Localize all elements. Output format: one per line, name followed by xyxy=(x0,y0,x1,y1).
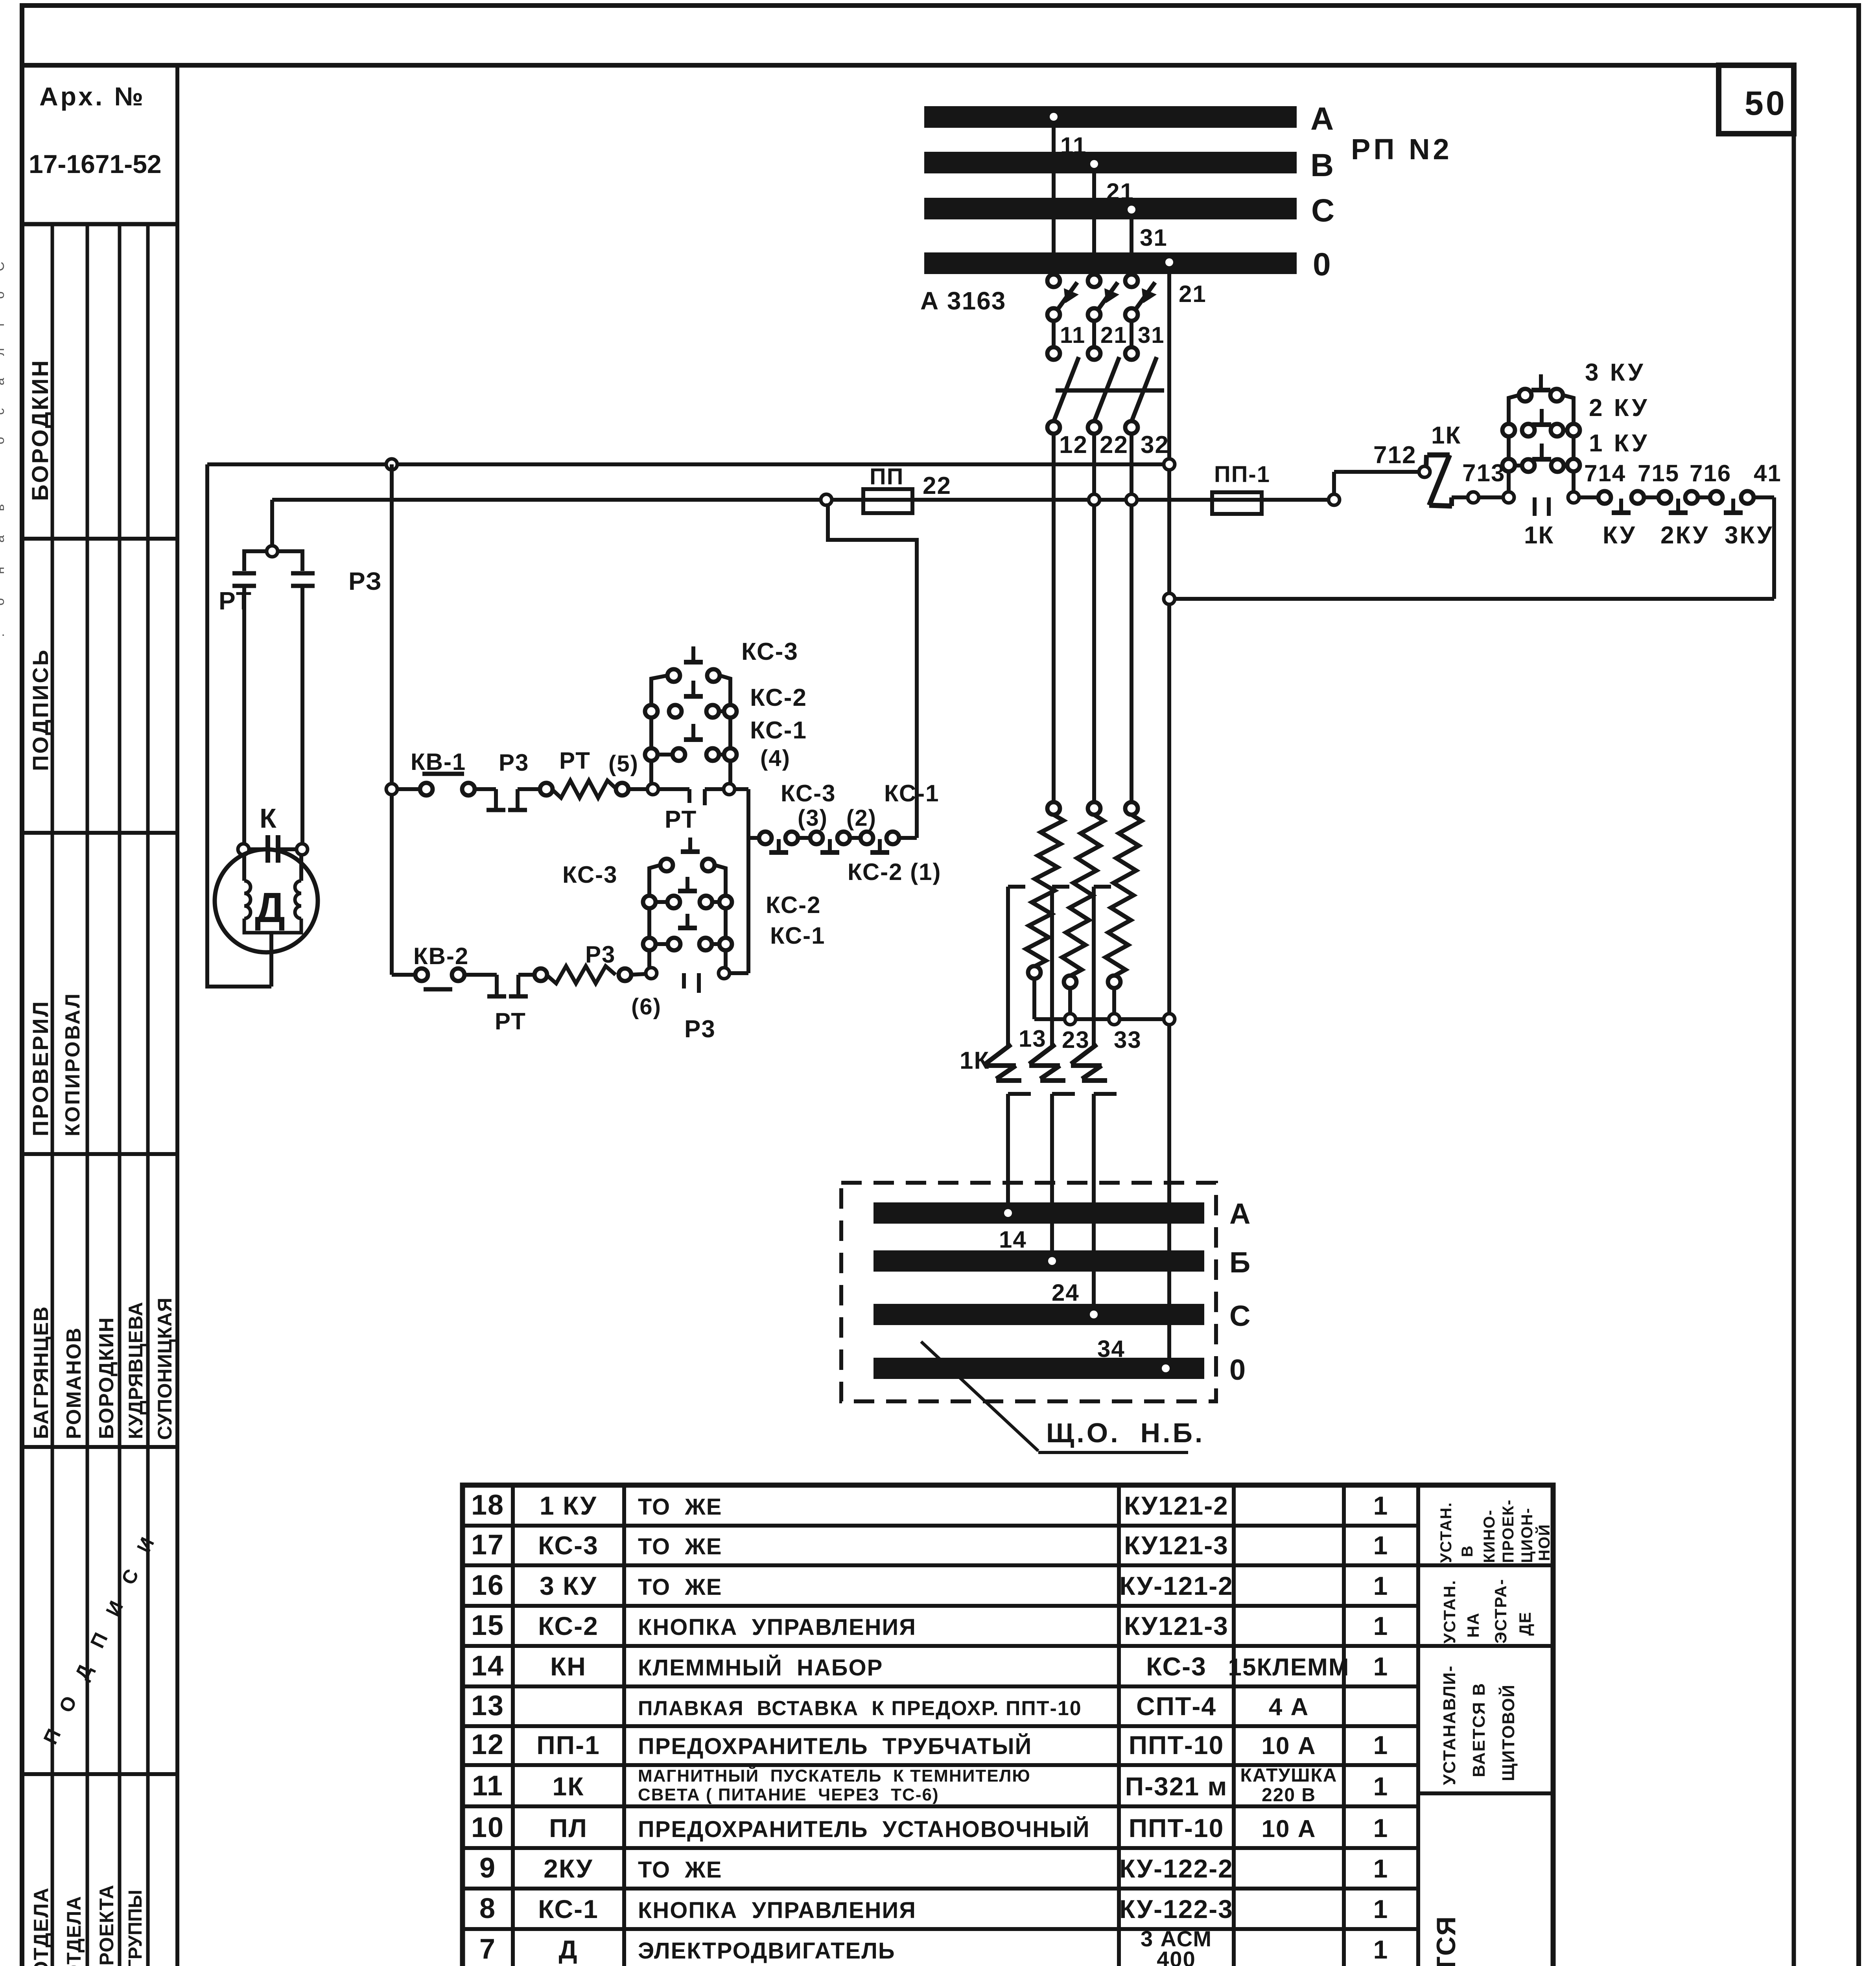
svg-text:10 А: 10 А xyxy=(1262,1732,1316,1760)
breaker crossbar xyxy=(1056,388,1164,393)
panel bus labels xyxy=(1229,1197,1251,1386)
svg-text:НОЙ: НОЙ xyxy=(1535,1524,1553,1561)
svg-text:КНОПКА УПРАВЛЕНИЯ: КНОПКА УПРАВЛЕНИЯ xyxy=(638,1614,916,1640)
wire КВ-1 rail xyxy=(390,464,394,975)
svg-text:КЛЕММНЫЙ НАБОР: КЛЕММНЫЙ НАБОР xyxy=(638,1655,883,1681)
svg-text:ТО ЖЕ: ТО ЖЕ xyxy=(638,1857,722,1883)
svg-text:21: 21 xyxy=(1100,322,1128,348)
svg-text:14: 14 xyxy=(999,1226,1027,1253)
svg-text:1К: 1К xyxy=(1431,422,1461,449)
svg-text:КНОПКА УПРАВЛЕНИЯ: КНОПКА УПРАВЛЕНИЯ xyxy=(638,1898,916,1923)
wire y1181 top control xyxy=(207,459,1175,470)
wire phase 1 to resistor xyxy=(1052,433,1056,803)
svg-text:9: 9 xyxy=(479,1852,496,1884)
svg-text:КС-2: КС-2 xyxy=(766,892,821,918)
svg-text:Д: Д xyxy=(255,884,286,931)
svg-text:12: 12 xyxy=(1059,431,1088,458)
svg-text:ПРЕДОХРАНИТЕЛЬ УСТАНОВОЧНЫЙ: ПРЕДОХРАНИТЕЛЬ УСТАНОВОЧНЫЙ xyxy=(638,1817,1090,1842)
fuse ПП xyxy=(863,464,951,513)
svg-text:Б: Б xyxy=(1229,1246,1251,1279)
svg-text:21: 21 xyxy=(1179,281,1207,307)
node wire 14 xyxy=(999,1209,1027,1253)
limit switch КВ-2 xyxy=(392,943,469,989)
svg-text:РЗ: РЗ xyxy=(348,567,382,595)
busbar C xyxy=(924,198,1297,219)
svg-text:РТ: РТ xyxy=(665,806,697,833)
neutral vertical wire xyxy=(1165,258,1173,1358)
motor Д xyxy=(215,849,318,987)
svg-text:714: 714 xyxy=(1584,460,1626,486)
svg-text:КВ-1: КВ-1 xyxy=(411,749,466,775)
svg-text:1: 1 xyxy=(1373,1854,1389,1883)
contactor 1K switch xyxy=(1426,422,1461,506)
wire 713 segment xyxy=(1452,460,1505,503)
svg-text:КС-3: КС-3 xyxy=(1146,1652,1207,1681)
svg-text:1 КУ: 1 КУ xyxy=(1589,430,1649,457)
remark rotated Устан в кинопроекционной xyxy=(1437,1499,1553,1563)
svg-text:СПТ-4: СПТ-4 xyxy=(1136,1692,1216,1721)
svg-text:КУ121-3: КУ121-3 xyxy=(1124,1531,1229,1560)
svg-text:ЭСТРА-: ЭСТРА- xyxy=(1491,1579,1510,1644)
contactor contact 1K pole 2 xyxy=(1029,887,1075,1258)
chain КУ contacts xyxy=(1579,491,1774,513)
svg-text:УСТАНАВЛИ-: УСТАНАВЛИ- xyxy=(1440,1665,1459,1785)
contact 1K aux xyxy=(1524,497,1554,549)
svg-text:К: К xyxy=(260,803,277,834)
fuse ПП-1 xyxy=(1212,462,1270,514)
svg-text:22: 22 xyxy=(1100,431,1128,458)
svg-text:1К: 1К xyxy=(960,1047,990,1074)
spec table grid xyxy=(463,1485,1553,1966)
svg-text:НА: НА xyxy=(1464,1612,1482,1638)
wire motor return rail xyxy=(207,464,271,987)
star point bus xyxy=(1034,1014,1175,1025)
button КС-2 row2 lower xyxy=(643,892,821,918)
wire y1271 fused control xyxy=(272,494,1334,505)
svg-text:БАГРЯНЦЕВ: БАГРЯНЦЕВ xyxy=(30,1306,53,1439)
button КС-2 row2 xyxy=(645,681,807,718)
svg-text:КН: КН xyxy=(550,1652,586,1681)
svg-text:(5): (5) xyxy=(608,751,639,777)
svg-text:31: 31 xyxy=(1138,322,1165,348)
svg-text:РУКОВОДИТЕЛЬ ГРУППЫ: РУКОВОДИТЕЛЬ ГРУППЫ xyxy=(125,1890,146,1966)
svg-text:в: в xyxy=(0,504,7,511)
svg-text:(6): (6) xyxy=(631,994,662,1020)
svg-text:31: 31 xyxy=(1140,225,1168,251)
svg-text:ПЛ: ПЛ xyxy=(549,1813,588,1843)
svg-text:УСТАНАВЛИВАЕТСЯ: УСТАНАВЛИВАЕТСЯ xyxy=(1431,1916,1461,1966)
relay contact РТ in КВ-2 row xyxy=(464,975,535,1035)
wire 41 return xyxy=(1164,497,1774,604)
svg-text:Р3: Р3 xyxy=(499,749,529,776)
button КС-1 row3 lower xyxy=(643,922,826,950)
svg-text:КИНО-: КИНО- xyxy=(1481,1509,1498,1563)
svg-text:713: 713 xyxy=(1462,460,1505,487)
svg-text:1: 1 xyxy=(1373,1894,1389,1924)
svg-text:4 А: 4 А xyxy=(1269,1694,1309,1721)
svg-text:ГЛ. ИНЖЕНЕР ОТДЕЛА: ГЛ. ИНЖЕНЕР ОТДЕЛА xyxy=(63,1896,85,1966)
svg-text:0: 0 xyxy=(1313,247,1331,282)
svg-text:Д: Д xyxy=(558,1935,578,1964)
svg-text:2 КУ: 2 КУ xyxy=(1589,394,1649,422)
wire lower stack to rail xyxy=(730,971,748,975)
svg-text:7: 7 xyxy=(479,1933,496,1965)
svg-text:В: В xyxy=(1310,147,1334,183)
svg-text:3КУ: 3КУ xyxy=(1725,522,1773,549)
svg-text:о: о xyxy=(0,598,7,606)
svg-text:ТО ЖЕ: ТО ЖЕ xyxy=(638,1574,722,1600)
button block rails xyxy=(1503,403,1579,503)
svg-text:22: 22 xyxy=(923,472,951,499)
busbar labels A B C 0 xyxy=(1310,101,1334,282)
relay coil РЗ contact xyxy=(291,567,382,844)
svg-text:ПП: ПП xyxy=(870,464,904,490)
remark rotated Устанавливается в щитовой xyxy=(1440,1665,1518,1785)
relay contact Р3 in КВ-1 row xyxy=(474,749,541,810)
node tap A xyxy=(1050,113,1058,274)
svg-text:15: 15 xyxy=(471,1610,504,1641)
svg-text:ГЛ. ИНЖЕНЕР ПРОЕКТА: ГЛ. ИНЖЕНЕР ПРОЕКТА xyxy=(96,1885,118,1966)
sheet number box 50 xyxy=(1719,65,1794,134)
svg-text:220 В: 220 В xyxy=(1262,1785,1316,1806)
svg-text:1К: 1К xyxy=(553,1772,584,1801)
svg-text:ЭЛЕКТРОДВИГАТЕЛЬ: ЭЛЕКТРОДВИГАТЕЛЬ xyxy=(638,1938,896,1964)
svg-text:12: 12 xyxy=(471,1729,504,1760)
button КС-1 row3 xyxy=(645,717,807,771)
svg-text:33: 33 xyxy=(1114,1027,1142,1053)
contactor contact 1K pole 3 xyxy=(1071,887,1117,1312)
svg-text:11: 11 xyxy=(1060,133,1087,159)
button symbol lower row3 xyxy=(686,914,689,928)
svg-text:КАТУШКА: КАТУШКА xyxy=(1240,1765,1338,1786)
svg-text:17-1671-52: 17-1671-52 xyxy=(29,149,162,179)
svg-text:3 КУ: 3 КУ xyxy=(540,1571,597,1600)
svg-text:13: 13 xyxy=(1019,1025,1047,1052)
svg-text:17: 17 xyxy=(471,1529,504,1561)
node tap B xyxy=(1090,160,1098,274)
svg-text:1: 1 xyxy=(1373,1491,1389,1520)
breaker output labels 12 22 32 xyxy=(1059,431,1169,458)
resistor Р3 in КВ-2 row xyxy=(534,941,646,983)
svg-text:ТО ЖЕ: ТО ЖЕ xyxy=(638,1534,722,1559)
margin archive marks xyxy=(0,261,7,637)
svg-text:С: С xyxy=(1311,193,1334,228)
labels 714 715 716 41 xyxy=(1584,460,1782,486)
svg-text:ПРОЕК-: ПРОЕК- xyxy=(1500,1499,1517,1563)
svg-text:л: л xyxy=(0,348,7,356)
svg-text:КУДРЯВЦЕВА: КУДРЯВЦЕВА xyxy=(125,1301,147,1439)
remark rotated Устан на эстраде xyxy=(1440,1579,1534,1644)
button symbol lower row2 xyxy=(686,877,689,891)
busbar 0 xyxy=(924,252,1297,274)
labels 13 23 33 xyxy=(1019,1025,1142,1053)
node wire 34 xyxy=(1090,1311,1125,1362)
svg-text:КУ: КУ xyxy=(1603,522,1636,549)
svg-text:РОМАНОВ: РОМАНОВ xyxy=(63,1327,85,1439)
svg-text:(2): (2) xyxy=(846,805,877,831)
svg-text:34: 34 xyxy=(1097,1336,1125,1362)
breaker pole labels 11 21 31 xyxy=(1060,322,1165,348)
button КС-3 row1 lower xyxy=(562,859,726,888)
node tap C xyxy=(1128,206,1135,274)
svg-text:1: 1 xyxy=(1373,1935,1389,1964)
svg-text:24: 24 xyxy=(1052,1279,1080,1306)
panel busbar 0 xyxy=(874,1358,1204,1379)
breaker pole 3 xyxy=(1125,274,1157,434)
svg-text:с: с xyxy=(0,408,7,415)
row 7 type two-line xyxy=(1141,1926,1212,1966)
svg-text:РТ: РТ xyxy=(219,587,252,615)
wire chain to fuse junction xyxy=(826,505,917,838)
svg-text:8: 8 xyxy=(479,1893,496,1924)
svg-text:Р3: Р3 xyxy=(684,1016,716,1043)
svg-text:1К: 1К xyxy=(1524,522,1554,549)
svg-text:КС-3: КС-3 xyxy=(741,638,798,665)
svg-text:ВАЕТСЯ В: ВАЕТСЯ В xyxy=(1469,1683,1489,1777)
capacitor К xyxy=(238,803,308,863)
button КС-3 row1 xyxy=(651,638,798,692)
svg-text:1: 1 xyxy=(1373,1772,1389,1801)
svg-text:11: 11 xyxy=(472,1770,503,1802)
svg-text:КУ121-2: КУ121-2 xyxy=(1124,1491,1229,1520)
svg-text:А: А xyxy=(1310,101,1334,137)
svg-text:КУ121-3: КУ121-3 xyxy=(1124,1611,1229,1640)
svg-text:БОРОДКИН: БОРОДКИН xyxy=(28,359,53,501)
svg-text:МАГНИТНЫЙ ПУСКАТЕЛЬ К ТЕМНИТ: МАГНИТНЫЙ ПУСКАТЕЛЬ К ТЕМНИТЕЛЮ xyxy=(638,1765,1031,1786)
svg-text:ПРОВЕРИЛ: ПРОВЕРИЛ xyxy=(28,1000,53,1136)
wire phase 2 to resistor xyxy=(1092,433,1096,803)
chain labels xyxy=(781,780,942,885)
svg-text:г: г xyxy=(0,322,7,326)
svg-text:СУПОНИЦКАЯ: СУПОНИЦКАЯ xyxy=(154,1297,176,1440)
button stack 1 rails xyxy=(647,679,735,795)
svg-text:н: н xyxy=(0,567,7,574)
spec table rows text xyxy=(471,1489,1388,1966)
svg-text:П-321 м: П-321 м xyxy=(1125,1772,1228,1801)
svg-text:2КУ: 2КУ xyxy=(1660,522,1709,549)
svg-text:ПЛАВКАЯ ВСТАВКА К ПРЕДОХР. П: ПЛАВКАЯ ВСТАВКА К ПРЕДОХР. ППТ-10 xyxy=(638,1697,1082,1720)
svg-text:а: а xyxy=(0,535,7,543)
breaker pole 1 xyxy=(1047,274,1079,434)
svg-text:С: С xyxy=(0,261,7,271)
panel busbar Б xyxy=(874,1250,1204,1272)
svg-text:1: 1 xyxy=(1373,1531,1389,1560)
svg-text:2КУ: 2КУ xyxy=(544,1854,593,1883)
svg-text:ПРЕДОХРАНИТЕЛЬ ТРУБЧАТЫЙ: ПРЕДОХРАНИТЕЛЬ ТРУБЧАТЫЙ xyxy=(638,1734,1032,1759)
svg-text:БОРОДКИН: БОРОДКИН xyxy=(95,1317,118,1439)
svg-text:Арх. №: Арх. № xyxy=(39,82,146,111)
svg-text:КС-2: КС-2 xyxy=(750,684,807,711)
svg-text:Щ.О. Н.Б.: Щ.О. Н.Б. xyxy=(1046,1417,1205,1448)
relay Р3 contact below lower stack xyxy=(631,973,716,1043)
svg-text:21: 21 xyxy=(1106,179,1134,205)
svg-text:УСТАН.: УСТАН. xyxy=(1440,1579,1459,1644)
relay coil РТ contact xyxy=(219,573,256,844)
svg-text:1: 1 xyxy=(1373,1611,1389,1640)
svg-text:С: С xyxy=(1229,1300,1251,1332)
svg-text:716: 716 xyxy=(1690,460,1731,486)
svg-text:11: 11 xyxy=(1060,322,1085,348)
svg-text:ДЕ: ДЕ xyxy=(1516,1611,1534,1636)
svg-text:РТ: РТ xyxy=(559,747,591,774)
svg-text:1: 1 xyxy=(1373,1571,1389,1600)
node wire neutral panel xyxy=(1162,1364,1170,1372)
chain КС contacts xyxy=(748,832,917,852)
wire branch РТ РЗ xyxy=(244,500,302,571)
svg-text:0: 0 xyxy=(1229,1353,1246,1386)
row 11 two-line name xyxy=(638,1765,1337,1806)
svg-text:о: о xyxy=(0,291,7,299)
busbar A xyxy=(924,106,1297,128)
svg-text:18: 18 xyxy=(471,1489,504,1521)
contactor contact 1K pole 1 xyxy=(985,887,1031,1210)
svg-text:23: 23 xyxy=(1062,1027,1090,1053)
leader Щ.О. Н.Б. xyxy=(921,1342,1205,1452)
svg-text:КС-1: КС-1 xyxy=(770,922,826,949)
svg-text:КС-1: КС-1 xyxy=(538,1894,599,1924)
svg-text:КС-3: КС-3 xyxy=(562,862,618,888)
button 3КУ xyxy=(1509,359,1646,409)
limit switch КВ-1 xyxy=(386,749,475,795)
svg-text:715: 715 xyxy=(1638,460,1679,486)
svg-text:КОПИРОВАЛ: КОПИРОВАЛ xyxy=(61,992,84,1136)
svg-text:А 3163: А 3163 xyxy=(920,287,1006,315)
svg-text:3 КУ: 3 КУ xyxy=(1585,359,1646,386)
svg-text:КУ-121-2: КУ-121-2 xyxy=(1119,1571,1233,1600)
svg-text:41: 41 xyxy=(1754,460,1782,486)
svg-text:(3): (3) xyxy=(798,805,828,831)
svg-text:о: о xyxy=(0,437,7,444)
svg-text:КУ-122-3: КУ-122-3 xyxy=(1119,1894,1233,1924)
svg-text:712: 712 xyxy=(1373,442,1416,469)
svg-text:32: 32 xyxy=(1141,431,1169,458)
svg-text:ПП-1: ПП-1 xyxy=(536,1730,600,1760)
button stack 2 rails xyxy=(646,868,730,979)
svg-text:(4): (4) xyxy=(760,746,791,771)
svg-text:1: 1 xyxy=(1373,1813,1389,1843)
svg-text:ПОДПИСЬ: ПОДПИСЬ xyxy=(28,648,53,771)
breaker pole 2 xyxy=(1088,274,1119,434)
relay РТ contact below stack xyxy=(658,789,724,852)
svg-text:ППТ-10: ППТ-10 xyxy=(1129,1813,1224,1843)
svg-text:ПП-1: ПП-1 xyxy=(1214,462,1270,487)
svg-text:14: 14 xyxy=(471,1650,504,1682)
svg-text:КС-2: КС-2 xyxy=(538,1611,599,1640)
busbar B xyxy=(924,152,1297,173)
dimmer resistor R1 xyxy=(1026,802,1063,1019)
svg-text:В: В xyxy=(1459,1545,1476,1557)
svg-text:СВЕТА ( ПИТАНИЕ ЧЕРЕЗ ТС-6): СВЕТА ( ПИТАНИЕ ЧЕРЕЗ ТС-6) xyxy=(638,1785,939,1804)
svg-text:КС-1: КС-1 xyxy=(750,717,807,744)
svg-text:10 А: 10 А xyxy=(1262,1815,1316,1843)
wire 712 step xyxy=(1329,442,1430,505)
remark rotated Устанавливается на ТС-6 xyxy=(1431,1916,1508,1966)
svg-text:50: 50 xyxy=(1745,85,1787,122)
svg-text:1 КУ: 1 КУ xyxy=(540,1491,597,1520)
svg-text:ЦИОН-: ЦИОН- xyxy=(1518,1508,1536,1563)
svg-text:ППТ-10: ППТ-10 xyxy=(1129,1730,1224,1760)
stamp column Арх № xyxy=(22,65,177,1966)
node wire 24 xyxy=(1048,1257,1080,1306)
svg-text:ЩИТОВОЙ: ЩИТОВОЙ xyxy=(1498,1684,1518,1781)
svg-text:10: 10 xyxy=(471,1812,504,1843)
stamp column grid xyxy=(22,224,177,1966)
svg-text:15КЛЕММ: 15КЛЕММ xyxy=(1228,1654,1350,1681)
svg-text:КУ-122-2: КУ-122-2 xyxy=(1119,1854,1233,1883)
panel busbar А xyxy=(874,1202,1204,1224)
svg-text:а: а xyxy=(0,378,7,385)
dashed panel box xyxy=(841,1183,1216,1401)
svg-text:16: 16 xyxy=(471,1570,504,1601)
svg-text:КС-2 (1): КС-2 (1) xyxy=(848,859,942,885)
svg-text:КС-3: КС-3 xyxy=(538,1531,599,1560)
svg-text:НАЧАЛЬНИК ОТДЕЛА: НАЧАЛЬНИК ОТДЕЛА xyxy=(30,1887,53,1966)
svg-text:400: 400 xyxy=(1157,1947,1196,1966)
dimmer resistor R3 xyxy=(1106,802,1141,1019)
resistor РТ in КВ-1 row xyxy=(540,747,647,798)
svg-text:1: 1 xyxy=(1373,1652,1389,1681)
panel busbar С xyxy=(874,1304,1204,1325)
svg-text:КВ-2: КВ-2 xyxy=(413,943,469,969)
button 1КУ xyxy=(1502,430,1649,472)
labels КУ 2КУ 3КУ below xyxy=(1603,522,1773,549)
svg-text:УСТАН.: УСТАН. xyxy=(1437,1502,1455,1563)
svg-text:РП N2: РП N2 xyxy=(1351,133,1452,166)
svg-text:.: . xyxy=(0,633,7,637)
button 2КУ xyxy=(1502,394,1649,436)
svg-text:13: 13 xyxy=(471,1690,504,1721)
svg-text:Р3: Р3 xyxy=(585,941,616,968)
svg-text:ТО ЖЕ: ТО ЖЕ xyxy=(638,1494,722,1520)
dimmer resistor R2 xyxy=(1062,802,1104,1019)
svg-text:КС-3: КС-3 xyxy=(781,780,836,806)
wire to rail x1903 xyxy=(735,789,748,973)
svg-text:РТ: РТ xyxy=(495,1008,526,1035)
svg-text:А: А xyxy=(1229,1197,1251,1230)
svg-text:КС-1: КС-1 xyxy=(884,780,940,806)
wire phase 3 to resistor xyxy=(1130,433,1133,803)
svg-text:1: 1 xyxy=(1373,1730,1389,1760)
